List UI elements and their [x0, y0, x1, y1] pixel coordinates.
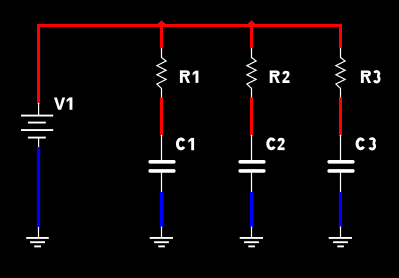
capacitor C1 [150, 135, 174, 193]
wire: R3 to C3 (red) [339, 97, 342, 135]
ground symbol under C1 [150, 227, 173, 247]
wire: C1 bottom (blue) [160, 192, 163, 227]
node junction dot at R1/top bus [156, 20, 168, 25]
label R1 [180, 70, 199, 83]
capacitor C2 [240, 135, 264, 193]
wire: top bus (red) from V1 to R3 [37, 24, 342, 27]
resistor R3 (zigzag) [336, 48, 345, 98]
resistor R1 (zigzag) [157, 48, 166, 98]
wire: R3 top vertical (red) [339, 24, 342, 48]
resistor R2 (zigzag) [247, 48, 256, 98]
capacitor C3 [329, 135, 353, 193]
label V1 [54, 97, 72, 109]
ground symbol under C3 [329, 227, 352, 247]
label C3 [357, 139, 375, 150]
ground symbol under V1 [26, 227, 49, 246]
label R2 [270, 71, 290, 84]
battery V1 symbol [21, 103, 53, 148]
wire: V1 bottom (blue) [37, 147, 40, 228]
wire: C2 bottom (blue) [250, 192, 253, 227]
label R3 [361, 71, 379, 84]
wire: R1 top vertical (red) [160, 24, 163, 48]
wire: C3 bottom (blue) [339, 192, 342, 227]
wire: V1 top vertical (red) [37, 24, 40, 104]
wire: R2 to C2 (red) [250, 97, 253, 135]
wire: R2 top vertical (red) [250, 24, 253, 48]
wire: R1 to C1 (red) [160, 97, 163, 135]
label C2 [268, 138, 285, 150]
node junction dot at R2/top bus [246, 20, 258, 25]
ground symbol under C2 [240, 227, 263, 247]
label C1 [177, 138, 194, 150]
